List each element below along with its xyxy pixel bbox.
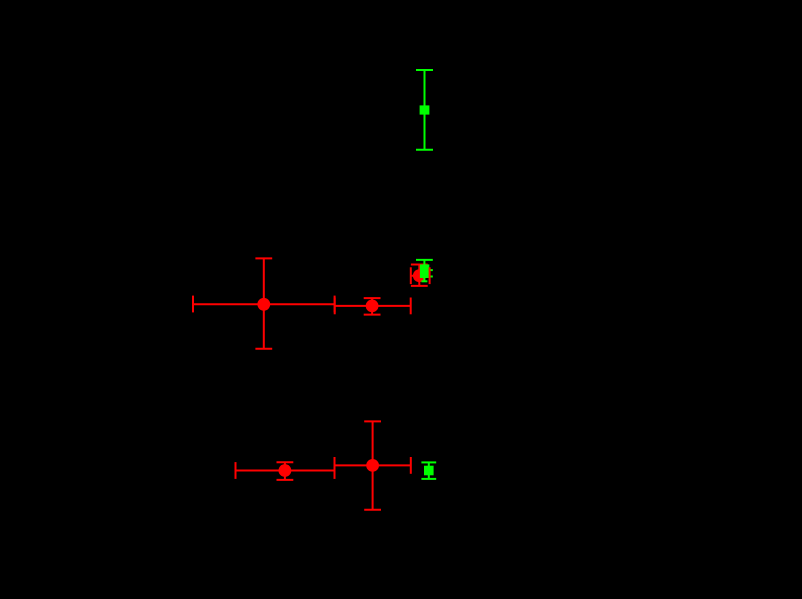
wire: R3 x-error line — [411, 275, 430, 277]
wire: R4 y-error line — [284, 462, 286, 480]
wire: R1 x-error line — [193, 303, 335, 305]
R3 x-error left cap — [410, 267, 412, 284]
wire: G3 y-error line — [428, 462, 430, 479]
G1 y-error top cap — [416, 69, 433, 71]
R5 x-error right cap — [410, 457, 412, 474]
R3 y-error bottom cap — [411, 285, 428, 287]
wire: G2 lower x-error line right — [429, 276, 433, 278]
wire: R3 y-error line — [418, 265, 420, 286]
red data point R4 with x/y error bars — [236, 462, 335, 480]
R3 x-error right cap (drawn over green square) — [429, 267, 431, 284]
R5 x-error left cap — [334, 457, 336, 474]
R2 x-error left cap — [334, 298, 336, 315]
wire: R2 x-error line — [335, 305, 411, 307]
wire: G2 upper x-error line right — [429, 269, 433, 271]
R5 marker circle — [366, 459, 379, 472]
R2 marker circle — [366, 300, 379, 313]
G2 marker squares (two overlapped) — [420, 264, 429, 278]
green data point G1 with y error bars — [416, 70, 433, 150]
wire: R5 y-error line — [372, 421, 374, 509]
G2 y-error bottom cap (short) — [421, 280, 427, 282]
R3 y-error top cap — [411, 264, 428, 266]
wire: R1 y-error line — [263, 258, 265, 348]
green data point G2 (overlapping R3) — [416, 260, 433, 282]
green data point G3 with y error bars — [421, 462, 436, 479]
R4 y-error bottom cap — [277, 479, 294, 481]
G2 y-error top cap — [416, 259, 433, 261]
G3 y-error bottom cap — [421, 478, 436, 480]
R2 x-error right cap — [410, 298, 412, 315]
R1 x-error left cap — [192, 296, 194, 313]
wire: R4 x-error line — [236, 470, 335, 472]
red data point R1 with x/y error bars — [193, 258, 335, 348]
R5 y-error bottom cap — [364, 509, 381, 511]
red data point R3 (overlapped by green G2) — [411, 265, 430, 286]
wire: G2 y-error line — [423, 260, 425, 282]
wire: G1 y-error line — [424, 70, 426, 150]
R1 marker circle — [257, 298, 270, 311]
G1 y-error bottom cap — [416, 149, 433, 151]
R4 y-error top cap — [277, 461, 294, 463]
wire: R5 x-error line — [335, 464, 411, 466]
red data point R5 with x/y error bars — [335, 421, 411, 509]
G3 y-error top cap — [421, 461, 436, 463]
R1 y-error top cap — [255, 257, 272, 259]
G1 marker square — [420, 105, 430, 114]
R1 y-error bottom cap — [255, 348, 272, 350]
R3 marker circle — [413, 269, 426, 282]
R4 marker circle — [279, 464, 292, 477]
R4 x-error right cap — [334, 462, 336, 479]
red data point R2 with x/y error bars — [335, 298, 411, 315]
R2 y-error bottom cap — [364, 314, 381, 316]
R5 y-error top cap — [364, 420, 381, 422]
R4 x-error left cap — [235, 462, 237, 479]
R2 y-error top cap — [364, 297, 381, 299]
G3 marker square — [424, 466, 434, 476]
wire: R2 y-error line — [371, 298, 373, 315]
R1 x-error right cap — [334, 296, 336, 313]
